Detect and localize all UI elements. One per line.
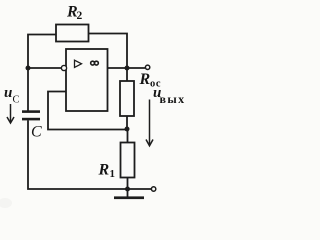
- svg-text:C: C: [31, 124, 42, 141]
- ground: [114, 189, 144, 199]
- wire capacitor bottom down and along bottom rail to terminal: [28, 120, 152, 189]
- arrow uC: [7, 104, 14, 123]
- wire node B to Roc: [126, 68, 128, 81]
- resistor Roc: [120, 81, 134, 116]
- wire from R2 left terminal down-left to node A: [28, 35, 56, 67]
- label R1: [98, 162, 116, 181]
- svg-text:R: R: [98, 162, 110, 179]
- terminal: common: [151, 187, 155, 191]
- wire from R2 right terminal to output node column: [89, 34, 128, 67]
- label Roc: [139, 71, 162, 90]
- label R2: [66, 4, 83, 23]
- wire non-inverting input to lower node C: [48, 92, 125, 130]
- node C (divider junction): [125, 127, 130, 132]
- wire node C to R1: [127, 129, 129, 143]
- resistor R2: [56, 25, 89, 42]
- capacitor C: [22, 110, 40, 120]
- wire node A to inverting input circle: [28, 67, 62, 69]
- svg-text:u: u: [4, 85, 12, 101]
- op-amp U1: [61, 49, 107, 111]
- wire Roc bottom to node C: [126, 116, 128, 129]
- arrow u_vyh: [146, 100, 153, 146]
- svg-text:R: R: [139, 71, 151, 88]
- node B (output junction): [125, 66, 130, 71]
- node A (inverting input junction): [26, 66, 31, 71]
- svg-text:С: С: [13, 95, 20, 106]
- wire op-amp output to output terminal: [108, 67, 146, 69]
- resistor R1: [121, 143, 135, 178]
- node D (ground rail junction): [125, 187, 130, 192]
- wire left branch: node A down to capacitor: [27, 68, 29, 111]
- svg-text:2: 2: [77, 10, 83, 22]
- label uC: [4, 85, 20, 106]
- label C: [31, 124, 42, 141]
- label u_vyh: [153, 85, 186, 106]
- svg-text:вых: вых: [160, 92, 186, 106]
- svg-text:1: 1: [110, 168, 116, 180]
- terminal: output: [145, 65, 149, 69]
- wire R1 bottom to node D: [127, 178, 129, 190]
